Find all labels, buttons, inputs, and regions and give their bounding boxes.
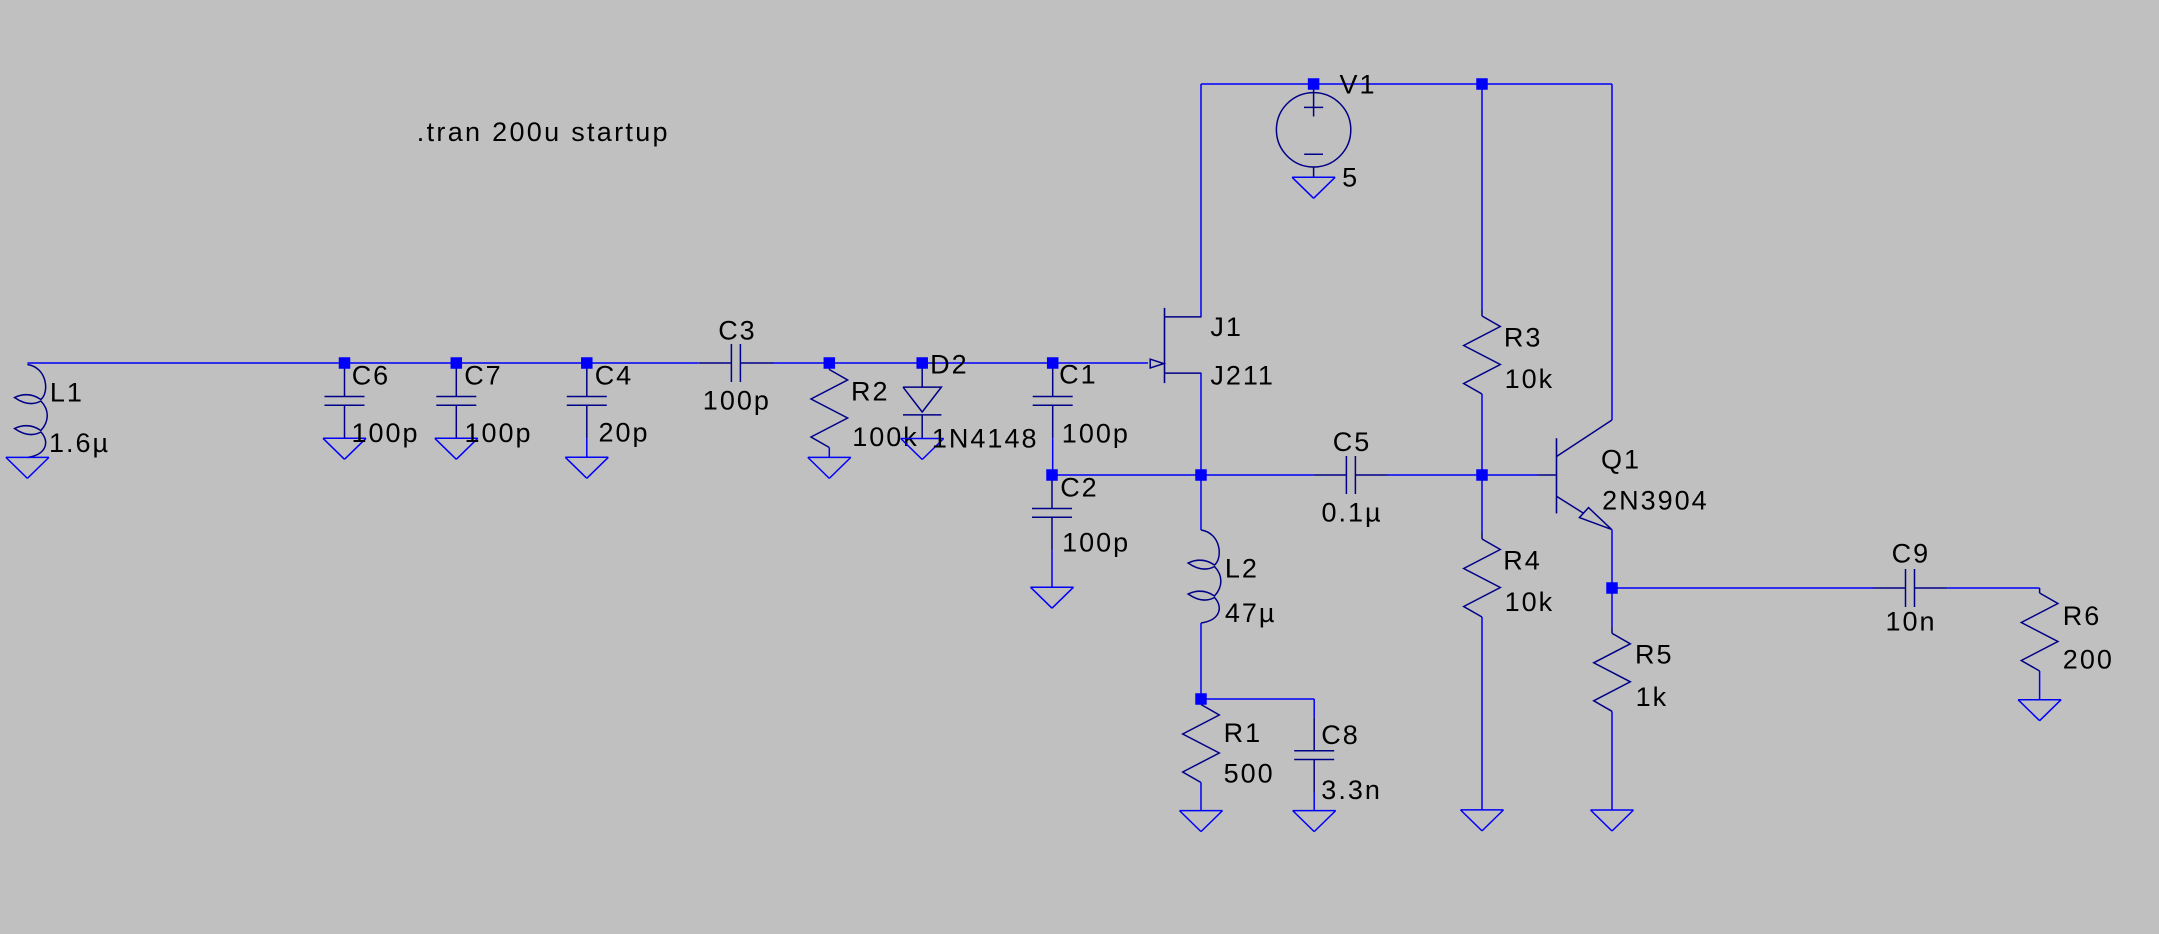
svg-text:3.3n: 3.3n xyxy=(1321,775,1382,805)
svg-text:1k: 1k xyxy=(1636,682,1669,712)
svg-text:100p: 100p xyxy=(1062,418,1130,448)
svg-text:J211: J211 xyxy=(1210,361,1275,391)
svg-text:C7: C7 xyxy=(464,360,503,390)
svg-text:C6: C6 xyxy=(352,360,391,390)
svg-text:.tran 200u startup: .tran 200u startup xyxy=(417,117,670,147)
svg-text:Q1: Q1 xyxy=(1601,444,1641,474)
svg-text:2N3904: 2N3904 xyxy=(1602,486,1709,516)
svg-text:V1: V1 xyxy=(1340,70,1377,100)
svg-text:100p: 100p xyxy=(703,386,771,416)
svg-text:10k: 10k xyxy=(1505,364,1555,394)
svg-text:R2: R2 xyxy=(851,377,890,407)
svg-text:1.6µ: 1.6µ xyxy=(49,428,110,458)
svg-text:C4: C4 xyxy=(595,360,634,390)
svg-text:L2: L2 xyxy=(1225,554,1259,584)
svg-text:R1: R1 xyxy=(1224,718,1263,748)
svg-text:C8: C8 xyxy=(1321,720,1360,750)
svg-text:1N4148: 1N4148 xyxy=(932,424,1039,454)
svg-text:20p: 20p xyxy=(599,418,650,448)
svg-text:C9: C9 xyxy=(1892,538,1931,568)
svg-text:L1: L1 xyxy=(50,378,84,408)
svg-text:100p: 100p xyxy=(465,418,533,448)
svg-text:D2: D2 xyxy=(930,349,969,379)
svg-text:100p: 100p xyxy=(352,418,420,448)
svg-text:10k: 10k xyxy=(1505,587,1555,617)
svg-text:100k: 100k xyxy=(852,422,919,452)
svg-text:R3: R3 xyxy=(1504,322,1543,352)
svg-text:C5: C5 xyxy=(1333,427,1372,457)
svg-text:500: 500 xyxy=(1224,759,1275,789)
svg-text:47µ: 47µ xyxy=(1225,598,1277,628)
svg-text:C1: C1 xyxy=(1059,360,1098,390)
svg-text:0.1µ: 0.1µ xyxy=(1322,498,1383,528)
svg-text:C3: C3 xyxy=(718,316,757,346)
svg-text:R5: R5 xyxy=(1635,640,1674,670)
svg-text:R4: R4 xyxy=(1503,546,1542,576)
svg-text:R6: R6 xyxy=(2063,601,2102,631)
svg-text:5: 5 xyxy=(1342,163,1359,193)
svg-text:J1: J1 xyxy=(1210,312,1243,342)
svg-text:C2: C2 xyxy=(1060,473,1099,503)
svg-text:10n: 10n xyxy=(1886,607,1937,637)
svg-text:100p: 100p xyxy=(1062,528,1130,558)
svg-text:200: 200 xyxy=(2063,644,2114,674)
